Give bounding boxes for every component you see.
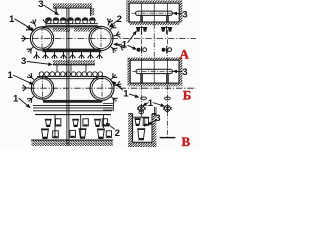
svg-text:1: 1 xyxy=(122,40,128,51)
svg-text:2: 2 xyxy=(117,14,122,25)
svg-text:1: 1 xyxy=(148,98,154,109)
svg-text:3: 3 xyxy=(38,0,43,10)
svg-text:3: 3 xyxy=(182,9,187,20)
svg-text:Б: Б xyxy=(183,88,192,103)
svg-text:1: 1 xyxy=(8,70,14,81)
svg-text:3: 3 xyxy=(155,113,160,124)
svg-text:1: 1 xyxy=(13,93,19,104)
svg-text:А: А xyxy=(180,47,190,62)
svg-text:В: В xyxy=(182,134,191,149)
svg-text:1: 1 xyxy=(123,88,129,99)
svg-text:3: 3 xyxy=(21,56,26,67)
svg-text:1: 1 xyxy=(9,14,15,25)
svg-text:3: 3 xyxy=(182,67,187,78)
svg-text:2: 2 xyxy=(115,128,120,139)
